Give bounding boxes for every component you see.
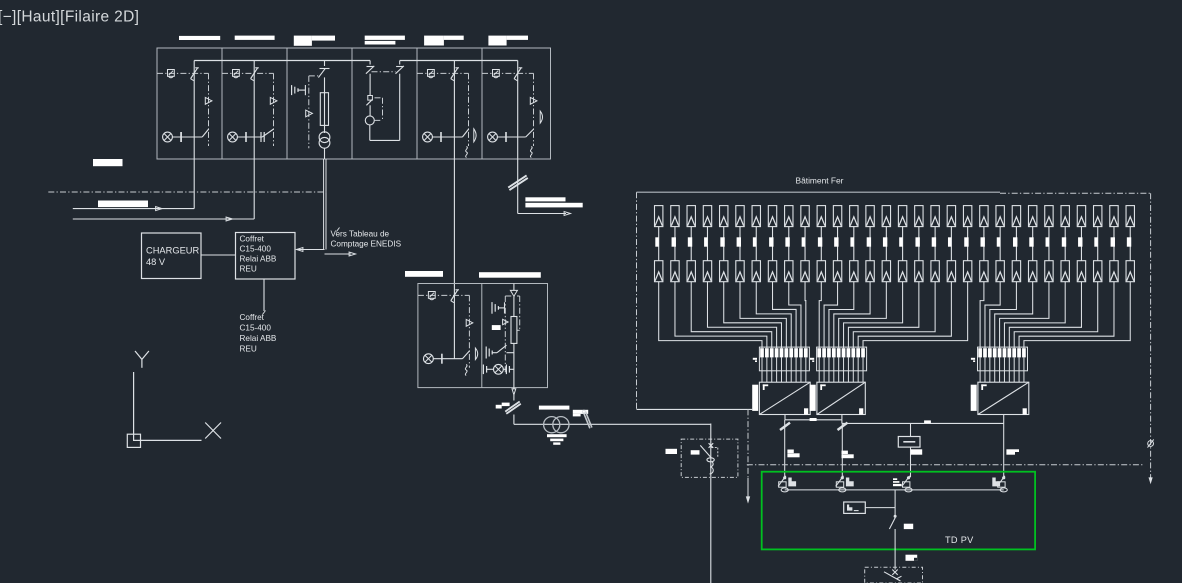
string link wire 20: [967, 227, 969, 261]
string wire S24: [995, 282, 1033, 348]
PV module M17b: [915, 261, 923, 282]
string link wire 13: [853, 227, 855, 261]
string wire S15: [839, 282, 887, 348]
PV module M27b: [1077, 261, 1085, 282]
feeder cell 1 capacitor tick: [180, 132, 182, 142]
PV module M12a: [833, 206, 841, 227]
boundary diameter marker: [1148, 439, 1154, 447]
wire to cell2 with arrow: [73, 217, 254, 221]
svg-text:Comptage ENEDIS: Comptage ENEDIS: [331, 240, 402, 249]
transformer T1: [544, 417, 569, 433]
AC feeder 2 slash: [838, 423, 848, 430]
string link wire 6: [739, 227, 741, 261]
board B label bar: [492, 325, 501, 330]
Batiment Fer boundary: [637, 192, 1151, 477]
string link wire 5: [723, 227, 725, 261]
svg-text:Coffret: Coffret: [240, 235, 265, 244]
combiner box CB2: [810, 347, 867, 382]
isolation slash below cell 6: [508, 175, 528, 190]
label bar below TD PV: [906, 555, 918, 561]
PV module M24b: [1028, 261, 1036, 282]
board B voltage lamp: [483, 364, 514, 374]
label bars near relay box: [666, 449, 700, 455]
connector blob 17: [915, 237, 919, 246]
string wire S8: [773, 282, 797, 348]
string wire S1: [659, 282, 762, 348]
TD PV outgoing wire: [894, 490, 896, 570]
board B triangle marker: [503, 319, 509, 324]
PV module M7a: [752, 206, 760, 227]
PV module M4b: [703, 261, 711, 282]
label bar cell1: [179, 36, 220, 40]
PV module M18a: [931, 206, 939, 227]
PV module M23a: [1012, 206, 1020, 227]
connector blob 27: [1078, 237, 1082, 246]
earth continuity dash-dot drop: [746, 409, 750, 503]
TD PV internal bus: [785, 489, 1004, 491]
PV module M26a: [1061, 206, 1069, 227]
label bar cell3: [294, 36, 335, 46]
PV module M26b: [1061, 261, 1069, 282]
svg-text:REU: REU: [240, 345, 257, 354]
combiner box CB1: [753, 347, 810, 382]
connector blob 28: [1094, 237, 1097, 246]
TD PV breaker Q1: [778, 476, 796, 492]
string wire S18: [853, 282, 935, 348]
PV module M14a: [866, 206, 874, 227]
PV module M14b: [866, 261, 874, 282]
PV module M19b: [947, 261, 955, 282]
outgoing box cross switch: [884, 570, 902, 582]
wire to ENEDIS metering arrow: [325, 252, 356, 256]
PV module M5a: [720, 206, 728, 227]
connector blob 22: [997, 237, 1000, 246]
string wire S22: [985, 282, 1000, 348]
wire cell3 to coffret arrow: [297, 248, 325, 252]
AC bus 1: [785, 415, 842, 420]
string link wire 14: [869, 227, 871, 261]
string link wire 26: [1064, 227, 1066, 261]
board B earth symbol upper: [492, 302, 505, 314]
string link wire 19: [950, 227, 952, 261]
PV module M30a: [1126, 206, 1134, 227]
PV module M8a: [768, 206, 776, 227]
text Vers Tableau de Comptage ENEDIS: [331, 228, 402, 249]
cell 4 changeover switches: [366, 61, 404, 74]
connector blob 1: [655, 237, 658, 246]
inverter U2: [810, 382, 866, 414]
wire MV link: [514, 415, 711, 425]
PV module M21a: [980, 206, 988, 227]
PV module M30b: [1126, 261, 1134, 282]
string wire S11: [819, 282, 821, 348]
PV module M6b: [736, 261, 744, 282]
PV module M2b: [671, 261, 679, 282]
UCS origin box: [127, 434, 140, 447]
relay dashed box: [681, 439, 738, 477]
PV module M1a: [655, 206, 663, 227]
meter box: [898, 423, 920, 477]
fuse board B: [511, 317, 517, 388]
string wire S10: [804, 282, 807, 348]
PV module M1b: [655, 261, 663, 282]
PV module M19a: [947, 206, 955, 227]
outgoing dashed box: [865, 567, 923, 583]
current transformer cell 3: [319, 132, 330, 159]
string link wire 3: [690, 227, 692, 261]
string link wire 9: [788, 227, 790, 261]
AC feeder 1 slash: [780, 423, 790, 430]
board B earth switch: [486, 345, 514, 358]
PV module M3a: [687, 206, 695, 227]
string link wire 30: [1129, 227, 1131, 261]
string wire S30: [1024, 282, 1130, 348]
text Coffret C15-400 Relai ABB REU: [240, 311, 277, 354]
label bar cell2: [235, 36, 275, 40]
wire cell6 to right with arrow: [518, 212, 571, 216]
board B cell2 incoming arrow: [510, 284, 517, 317]
PV module M24a: [1028, 206, 1036, 227]
connector blob 3: [688, 237, 692, 246]
wire cell6 drop: [517, 61, 519, 214]
string wire S9: [789, 282, 801, 348]
PV module M22b: [996, 261, 1004, 282]
PV module M29b: [1110, 261, 1118, 282]
string wire S20: [863, 282, 968, 348]
PV module M25b: [1045, 261, 1053, 282]
PV module M15a: [882, 206, 890, 227]
wire LV main drop: [710, 424, 712, 583]
connector blob 24: [1029, 237, 1033, 246]
AC feeder 1 wire: [784, 420, 786, 478]
connector blob 5: [720, 237, 724, 246]
svg-text:[−][Haut][Filaire 2D]: [−][Haut][Filaire 2D]: [0, 9, 139, 26]
PV module M10b: [801, 261, 809, 282]
wire board B feeder riser: [453, 295, 455, 358]
connector blob 12: [834, 237, 838, 246]
connector blob 7: [753, 237, 756, 246]
svg-text:48 V: 48 V: [146, 257, 166, 267]
PV module M11b: [817, 261, 825, 282]
PV module M16b: [898, 261, 906, 282]
PV module M4a: [703, 206, 711, 227]
connector blob 19: [948, 237, 951, 246]
feeder cell 5 (breaker, lamp, contactor): [417, 68, 476, 158]
PV module M15b: [882, 261, 890, 282]
string link wire 25: [1048, 227, 1050, 261]
PV module M23b: [1012, 261, 1020, 282]
TD PV relay module: [844, 502, 895, 513]
transformer earth: [547, 434, 567, 445]
TD PV breaker Q3: [893, 476, 912, 492]
boundary end arrow: [1149, 477, 1153, 484]
string link wire 2: [674, 227, 676, 261]
PV module M18b: [931, 261, 939, 282]
connector blob 26: [1062, 237, 1066, 246]
PV module M2a: [671, 206, 679, 227]
svg-text:Coffret: Coffret: [240, 313, 265, 322]
connector blob 18: [932, 237, 936, 246]
string wire S6: [740, 282, 786, 348]
PV module M10a: [801, 206, 809, 227]
connector blob 2: [672, 237, 676, 246]
TD PV enclosure: [762, 472, 1035, 550]
arrow below board B: [512, 388, 516, 401]
string link wire 24: [1032, 227, 1034, 261]
AC feeder 2 wire: [841, 423, 843, 477]
AC bus 2: [842, 420, 1004, 424]
string link wire 27: [1080, 227, 1082, 261]
svg-text:Bâtiment Fer: Bâtiment Fer: [796, 176, 844, 186]
connector blob 8: [769, 237, 773, 246]
TD PV switch label: [904, 524, 913, 529]
feeder cell 6 (breaker, lamp, contactor): [482, 68, 543, 158]
label bars below cell 6: [525, 197, 582, 207]
PV module M25a: [1045, 206, 1053, 227]
connector blob 11: [818, 237, 822, 246]
box Coffret C15-400 Relai ABB REU: [236, 233, 296, 280]
UCS icon X axis: [134, 423, 221, 441]
connector blob 29: [1111, 237, 1115, 246]
wire cell1 riser: [193, 61, 195, 209]
string link wire 10: [804, 227, 806, 261]
PV module M22a: [996, 206, 1004, 227]
PV module M11a: [817, 206, 825, 227]
string link wire 28: [1097, 227, 1099, 261]
string link wire 8: [772, 227, 774, 261]
string wire S7: [756, 282, 791, 348]
string link wire 21: [983, 227, 985, 261]
relay box breaker with coil: [700, 443, 718, 474]
string link wire 18: [934, 227, 936, 261]
connector blob 6: [737, 237, 741, 246]
feeder cell 2 capacitor ticks: [261, 132, 264, 142]
string wire S14: [834, 282, 870, 348]
equipotential dash-dot line: [747, 464, 1144, 466]
connector blob 14: [867, 237, 871, 246]
svg-text:CHARGEUR: CHARGEUR: [146, 246, 199, 256]
string link wire 11: [820, 227, 822, 261]
string wire S5: [724, 282, 782, 348]
TD PV breaker Q4: [992, 476, 1007, 492]
inverter U1: [752, 382, 810, 414]
connector blob 16: [899, 237, 902, 246]
cell 3 triangle marker: [306, 110, 313, 117]
cell 4 voltage transformer loop: [365, 74, 399, 141]
PV module M6a: [736, 206, 744, 227]
svg-text:TD PV: TD PV: [945, 535, 974, 545]
switchboard A outline: [157, 48, 551, 159]
connector blob 30: [1127, 237, 1131, 246]
label bar left 2: [98, 201, 148, 208]
PV module M20b: [963, 261, 971, 282]
svg-text:C15-400: C15-400: [240, 324, 272, 333]
string wire S4: [707, 282, 776, 348]
UCS icon Y axis: [134, 351, 149, 441]
wire to cell1 with arrow: [73, 207, 194, 211]
feeder cell 2 (disconnector, breaker, lamp): [222, 68, 277, 146]
PV module M5b: [720, 261, 728, 282]
svg-text:Vers Tableau de: Vers Tableau de: [331, 230, 390, 239]
PV module M20a: [963, 206, 971, 227]
string link wire 16: [902, 227, 904, 261]
inverter U1 AC stub: [784, 415, 786, 420]
string wire S28: [1014, 282, 1098, 348]
string wire S23: [990, 282, 1017, 348]
connector blob 25: [1046, 237, 1049, 246]
wire chargeur-coffret: [201, 254, 236, 256]
string wire S29: [1019, 282, 1114, 348]
string link wire 22: [999, 227, 1001, 261]
string wire S19: [858, 282, 951, 348]
svg-text:C15-400: C15-400: [240, 245, 272, 254]
string wire S17: [848, 282, 918, 348]
PV module M12b: [833, 261, 841, 282]
PV module M7b: [752, 261, 760, 282]
busbar board A: [194, 60, 518, 62]
svg-text:Relai ABB: Relai ABB: [240, 255, 277, 264]
string link wire 15: [885, 227, 887, 261]
PV module M3b: [687, 261, 695, 282]
TD PV main switch: [889, 515, 896, 529]
string wire S21: [980, 282, 984, 348]
board B dash-dot branch: [505, 296, 519, 374]
connector blob 23: [1013, 237, 1017, 246]
PV module M21b: [980, 261, 988, 282]
wire coffret drop: [263, 279, 265, 311]
PV module M28b: [1094, 261, 1102, 282]
connector blob 9: [785, 237, 789, 246]
PV module M13b: [850, 261, 858, 282]
text Batiment Fer: [796, 176, 844, 186]
label bar cell4: [365, 36, 405, 45]
fuse cell 3: [320, 93, 328, 133]
string wire S25: [1000, 282, 1049, 348]
PV module M9a: [785, 206, 793, 227]
PV module M29a: [1110, 206, 1118, 227]
connector blob 20: [964, 237, 968, 246]
cell 3 dash-dot link: [309, 76, 318, 148]
cell 3 switch: [318, 61, 329, 93]
dash-dot control line: [48, 191, 326, 193]
wire cell2 riser: [253, 61, 255, 220]
PV module M27a: [1077, 206, 1085, 227]
string wire S16: [844, 282, 903, 348]
viewport controls label: [0, 9, 139, 26]
PV module M8b: [768, 261, 776, 282]
string link wire 17: [918, 227, 920, 261]
string wire S12: [824, 282, 837, 348]
PV module M16a: [898, 206, 906, 227]
svg-text:Relai ABB: Relai ABB: [240, 334, 277, 343]
string link wire 12: [837, 227, 839, 261]
text TD PV: [945, 535, 974, 545]
string link wire 23: [1015, 227, 1017, 261]
label bar cell5: [424, 36, 464, 46]
AC bus 2 label: [924, 420, 931, 423]
AC feeder 4 label: [1006, 449, 1019, 454]
label bar cell6: [488, 36, 528, 46]
TD PV breaker Q2: [836, 476, 854, 492]
label bar left 1: [93, 159, 123, 166]
string link wire 4: [706, 227, 708, 261]
PV module M9b: [785, 261, 793, 282]
box CHARGEUR 48 V: [142, 233, 202, 279]
string wire S3: [691, 282, 772, 348]
string wire S26: [1004, 282, 1065, 348]
AC feeder 1 label: [787, 450, 799, 458]
PV module M28a: [1094, 206, 1102, 227]
connector blob 15: [883, 237, 887, 246]
PV module M13a: [850, 206, 858, 227]
PV module M17a: [915, 206, 923, 227]
label bars near MV drop: [496, 403, 589, 417]
wire cell3 drop (thick): [324, 159, 326, 250]
board B feeder cell (breaker, lamp, contactor): [418, 290, 478, 376]
combiner box CB3: [971, 347, 1028, 382]
feeder cell 1 (disconnector, breaker, lamp): [157, 68, 212, 146]
wire cell5 riser to board B: [453, 61, 455, 296]
string link wire 1: [658, 227, 660, 261]
label bars above board B: [405, 271, 541, 278]
string wire S2: [675, 282, 767, 348]
inverter U3: [971, 382, 1029, 414]
switchboard B outline: [418, 284, 548, 388]
cell 4 dash-dot bridge: [372, 71, 396, 73]
cell 3 earth symbol: [292, 85, 306, 95]
switch on MV link: [582, 410, 592, 428]
AC feeder 2 label: [842, 451, 854, 459]
string link wire 29: [1113, 227, 1115, 261]
connector blob 21: [981, 237, 985, 246]
AC feeder 3 label: [911, 449, 923, 454]
connector blob 13: [850, 237, 853, 246]
inverter U3 AC stub: [1003, 415, 1005, 424]
string wire S27: [1009, 282, 1081, 348]
string link wire 7: [755, 227, 757, 261]
svg-text:REU: REU: [240, 265, 257, 274]
isolation slash on MV drop: [505, 402, 521, 414]
string wire S13: [829, 282, 854, 348]
connector blob 4: [704, 237, 707, 246]
connector blob 10: [802, 237, 805, 246]
AC feeder 4 wire: [1003, 423, 1005, 477]
AC bus 1 label: [810, 418, 817, 421]
